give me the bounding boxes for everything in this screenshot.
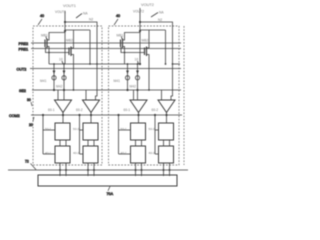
wire MB2 drain down <box>73 56 75 91</box>
svg-text:60-1: 60-1 <box>48 108 55 112</box>
svg-text:40-2: 40-2 <box>149 151 155 155</box>
svg-text:40: 40 <box>40 14 44 18</box>
op-amp 60-1 <box>55 100 72 113</box>
svg-text:M41: M41 <box>40 79 47 83</box>
wire 50-1 to 40-1 <box>135 140 137 146</box>
wire top rail <box>125 33 141 40</box>
svg-text:10: 10 <box>135 58 139 62</box>
wire MB1-MB2 mirror (right) <box>121 47 145 53</box>
bus line COM2 <box>31 114 182 116</box>
wire MB2 source up <box>148 30 150 47</box>
svg-text:N2: N2 <box>158 18 162 22</box>
wire comparator2 inputs <box>85 90 87 100</box>
latch 50-2 (right) <box>159 123 174 140</box>
op-amp 60-1 (right) <box>130 100 147 113</box>
svg-text:70A: 70A <box>107 192 114 196</box>
bus line PRE1 <box>31 48 181 50</box>
svg-text:72: 72 <box>25 160 29 164</box>
svg-text:60-2: 60-2 <box>76 108 83 112</box>
current source M42 (right) <box>137 64 139 100</box>
wire 40-2 outputs to bus <box>87 163 89 176</box>
svg-text:50-2: 50-2 <box>73 127 79 131</box>
wire MB1 drain down <box>124 48 126 65</box>
svg-text:M42: M42 <box>56 85 63 89</box>
svg-text:OUT2: OUT2 <box>17 68 27 72</box>
svg-text:MB2: MB2 <box>142 39 149 43</box>
svg-text:PRE2: PRE2 <box>19 42 29 46</box>
svg-text:40-2: 40-2 <box>73 151 79 155</box>
wire 50-1 to 40-1 <box>59 140 61 146</box>
wire 60-1 output <box>62 113 64 124</box>
wire VOUT2 vertical <box>139 8 141 64</box>
svg-text:VOUT1: VOUT1 <box>55 10 66 14</box>
svg-text:50-1: 50-1 <box>121 127 127 131</box>
wire MB1 drain down <box>48 48 50 65</box>
dashed edge next block <box>183 26 185 165</box>
wire MB2 source up <box>73 30 75 47</box>
wire VOUT1 vertical <box>64 11 66 64</box>
ref 40 right <box>114 14 120 25</box>
bus line OUT2 <box>30 68 181 70</box>
latch 40-2 (right) <box>159 146 174 163</box>
op-amp 60-2 (right) <box>158 100 175 113</box>
latch 40-2 <box>83 146 98 163</box>
svg-text:50-1: 50-1 <box>45 127 51 131</box>
wire 60-2 output <box>90 113 92 124</box>
svg-text:VOUT2: VOUT2 <box>141 2 154 7</box>
wire 40-1 outputs to bus <box>59 163 61 176</box>
svg-text:VOUT1: VOUT1 <box>63 3 76 8</box>
svg-text:60-1: 60-1 <box>124 108 131 112</box>
svg-text:30: 30 <box>27 98 31 102</box>
latch 40-1 (right) <box>131 146 146 163</box>
wire 60-1 output <box>138 113 140 124</box>
current source M41 (right) <box>127 64 129 90</box>
wire 50-2 to 40-2 <box>163 140 165 146</box>
wire 50-2 to 40-2 <box>87 140 89 146</box>
svg-text:VOUT2: VOUT2 <box>133 10 144 14</box>
wire 40-1 outputs to bus <box>135 163 137 176</box>
wire comparator left input <box>133 90 135 100</box>
wire N2 branch <box>140 22 173 100</box>
svg-text:50-2: 50-2 <box>149 127 155 131</box>
svg-text:40: 40 <box>116 14 120 18</box>
svg-text:NA: NA <box>83 12 88 16</box>
latch 50-1 (right) <box>131 123 146 140</box>
wire COM feed col2 <box>154 115 156 154</box>
wire MB1-MB2 mirror <box>46 47 70 53</box>
svg-text:40-1: 40-1 <box>121 151 127 155</box>
ref 40 left <box>38 14 44 25</box>
bus line 72 <box>8 169 188 171</box>
svg-text:10: 10 <box>59 58 63 62</box>
wire 40-2 outputs to bus <box>163 163 165 176</box>
block 70A <box>38 175 177 186</box>
wire top rail <box>49 33 65 40</box>
wire MB2 drain down <box>148 56 150 91</box>
svg-text:M41: M41 <box>114 79 121 83</box>
svg-text:NA: NA <box>159 11 164 15</box>
wire 60-2 output <box>166 113 168 124</box>
op-amp 60-2 <box>83 100 100 113</box>
svg-text:N2: N2 <box>89 17 93 21</box>
svg-text:60-2: 60-2 <box>152 108 159 112</box>
current source M42 <box>63 64 65 100</box>
svg-text:MB1: MB1 <box>117 34 124 38</box>
svg-text:COM2: COM2 <box>9 114 20 118</box>
bus line SE2 <box>32 89 181 91</box>
svg-text:PRE1: PRE1 <box>19 48 29 52</box>
latch 40-1 <box>55 146 70 163</box>
wire CS top node <box>49 63 97 65</box>
wire comparator2 inputs <box>161 90 163 100</box>
current source M41 <box>53 64 55 90</box>
wire COM feed col1 <box>42 115 44 154</box>
svg-text:SE2: SE2 <box>19 89 26 93</box>
wire CS top node <box>139 63 141 65</box>
wire N2 branch <box>65 22 97 100</box>
latch 50-1 <box>55 123 70 140</box>
svg-text:40-1: 40-1 <box>45 151 51 155</box>
svg-text:MB2: MB2 <box>66 39 73 43</box>
latch 50-2 <box>83 123 98 140</box>
wire COM feed col2 <box>79 115 81 154</box>
svg-text:M42: M42 <box>130 85 137 89</box>
dashed box 40 (right) <box>109 26 180 165</box>
wire stage link <box>97 63 140 65</box>
wire comparator left input <box>57 90 59 100</box>
bus line PRE2 <box>31 42 181 44</box>
svg-text:20: 20 <box>29 123 33 127</box>
svg-text:MB1: MB1 <box>41 34 48 38</box>
dashed box 40 (left) <box>33 26 102 165</box>
wire COM feed col1 <box>118 115 120 154</box>
